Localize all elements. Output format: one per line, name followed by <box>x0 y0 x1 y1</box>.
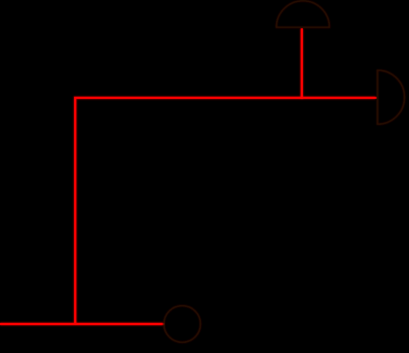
wire W1: horizontal net (node A) from corner to right component, with vertical left branch <box>75 98 377 324</box>
wire W2: bottom horizontal net from left edge to circular component <box>0 322 164 325</box>
semicircle component B2 (D-shape, right, flat side left) <box>378 70 405 124</box>
wire W3: vertical stub from horizontal net up to dome component <box>300 28 303 99</box>
semicircle component B1 (dome, top, flat side down) <box>276 1 329 28</box>
circular component M1 (bottom) <box>164 306 201 343</box>
